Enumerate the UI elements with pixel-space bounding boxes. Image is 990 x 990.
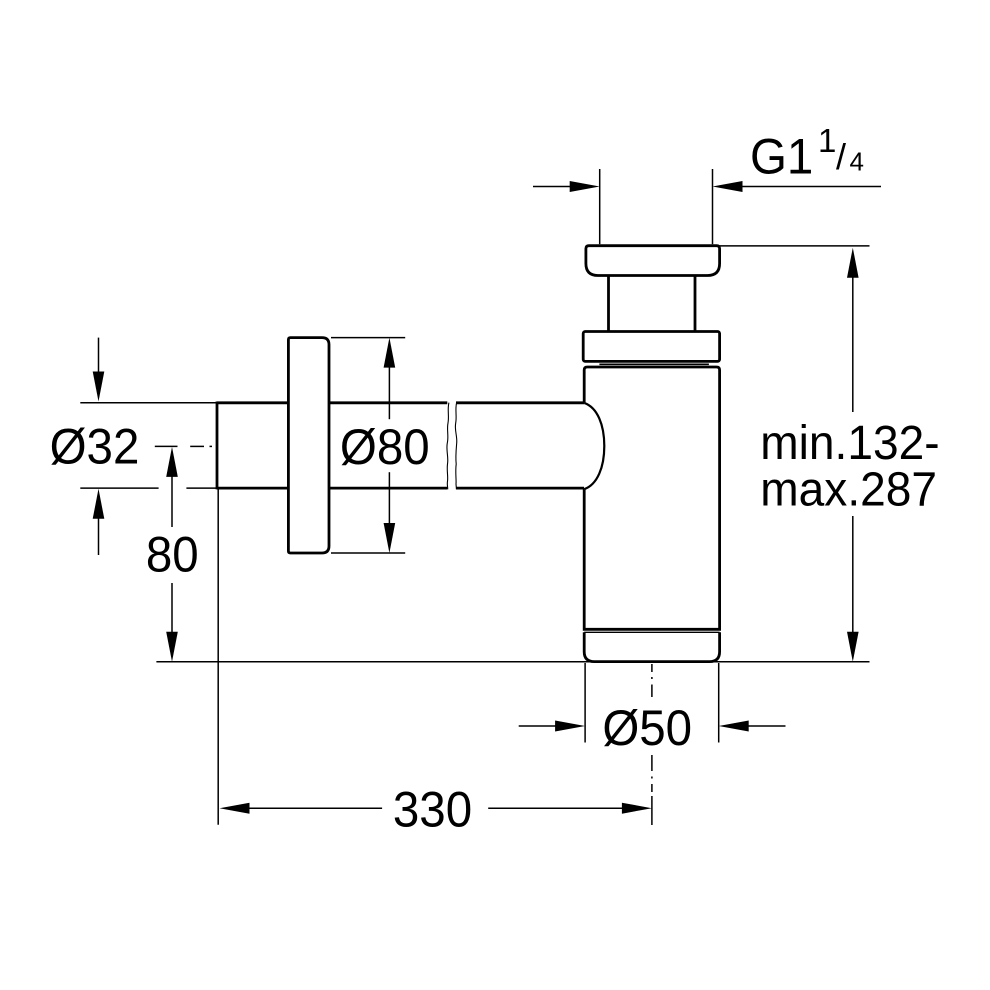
svg-text:4: 4 xyxy=(850,147,864,177)
svg-text:Ø32: Ø32 xyxy=(50,420,140,475)
svg-text:Ø50: Ø50 xyxy=(602,701,692,756)
svg-text:max.287: max.287 xyxy=(760,463,937,517)
svg-text:80: 80 xyxy=(146,527,199,582)
svg-text:Ø80: Ø80 xyxy=(340,420,430,475)
svg-text:1: 1 xyxy=(818,122,836,159)
svg-text:G1: G1 xyxy=(750,130,813,185)
svg-text:/: / xyxy=(836,136,846,177)
svg-text:330: 330 xyxy=(393,783,472,838)
